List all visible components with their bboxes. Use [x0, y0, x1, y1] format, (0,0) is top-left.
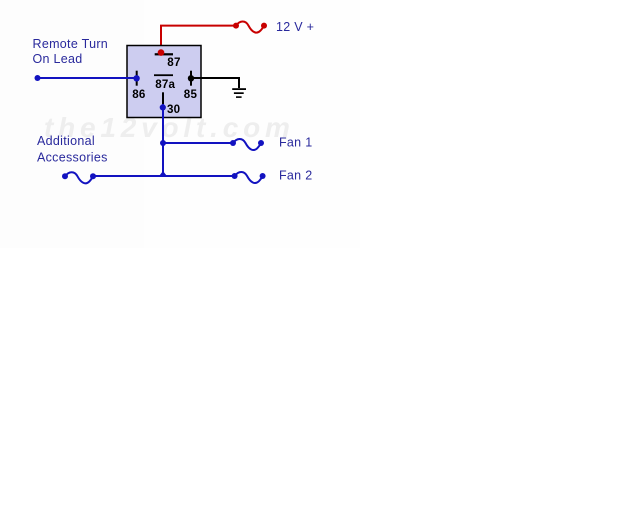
wire pin30 vertical trunk (blue): [162, 104, 164, 176]
wire ground (black): [191, 78, 239, 88]
pin 87 contact bar: [155, 53, 173, 55]
label 12 V +: [276, 20, 314, 34]
wire red 12V supply: [161, 26, 236, 53]
svg-text:85: 85: [184, 88, 198, 101]
node junction Fan2 (blue): [159, 171, 168, 177]
svg-text:On Lead: On Lead: [33, 52, 83, 66]
pin 87a label: [155, 78, 175, 91]
pin 87 junction dot (red): [158, 49, 165, 56]
node junction Fan1 (blue): [160, 140, 166, 146]
label Fan 1: [279, 136, 312, 150]
wire Fan 1 branch (blue): [163, 142, 233, 144]
pin 87a contact bar: [154, 74, 173, 76]
svg-text:87: 87: [167, 56, 180, 69]
pin 86 junction dot (blue): [133, 75, 139, 81]
pin 87 label: [167, 56, 180, 69]
watermark the12volt.com: [44, 112, 295, 143]
label Remote Turn On Lead: [33, 37, 109, 66]
svg-text:30: 30: [167, 103, 180, 116]
pin 85 junction dot (black): [188, 75, 194, 81]
pin 30 label: [167, 103, 180, 116]
fuse F1 red 12V: [233, 22, 267, 33]
svg-text:86: 86: [132, 88, 146, 101]
wire Fan 2 branch (blue): [93, 175, 235, 177]
svg-text:12 V +: 12 V +: [276, 20, 314, 34]
label Additional Accessories: [37, 134, 108, 165]
svg-text:Fan 1: Fan 1: [279, 136, 312, 150]
relay K1 body: [127, 46, 201, 118]
pin 30 terminal bar: [162, 92, 164, 104]
svg-text:87a: 87a: [155, 78, 175, 91]
wire remote turn on lead (blue): [35, 75, 137, 81]
pin 85 label: [184, 88, 198, 101]
svg-text:Additional: Additional: [37, 134, 95, 148]
label Fan 2: [279, 169, 312, 183]
pin 85 terminal bar: [190, 71, 192, 86]
pin 86 label: [132, 88, 146, 101]
fuse F2 Fan 1: [230, 139, 264, 150]
fuse F3 additional accessories: [62, 172, 96, 183]
svg-text:Remote Turn: Remote Turn: [33, 37, 109, 51]
pin 30 junction dot (blue): [160, 104, 166, 110]
svg-text:Fan 2: Fan 2: [279, 169, 312, 183]
pin 86 terminal bar: [136, 71, 138, 86]
fuse F4 Fan 2: [232, 172, 266, 183]
svg-text:Accessories: Accessories: [37, 151, 108, 165]
ground symbol: [232, 88, 246, 98]
